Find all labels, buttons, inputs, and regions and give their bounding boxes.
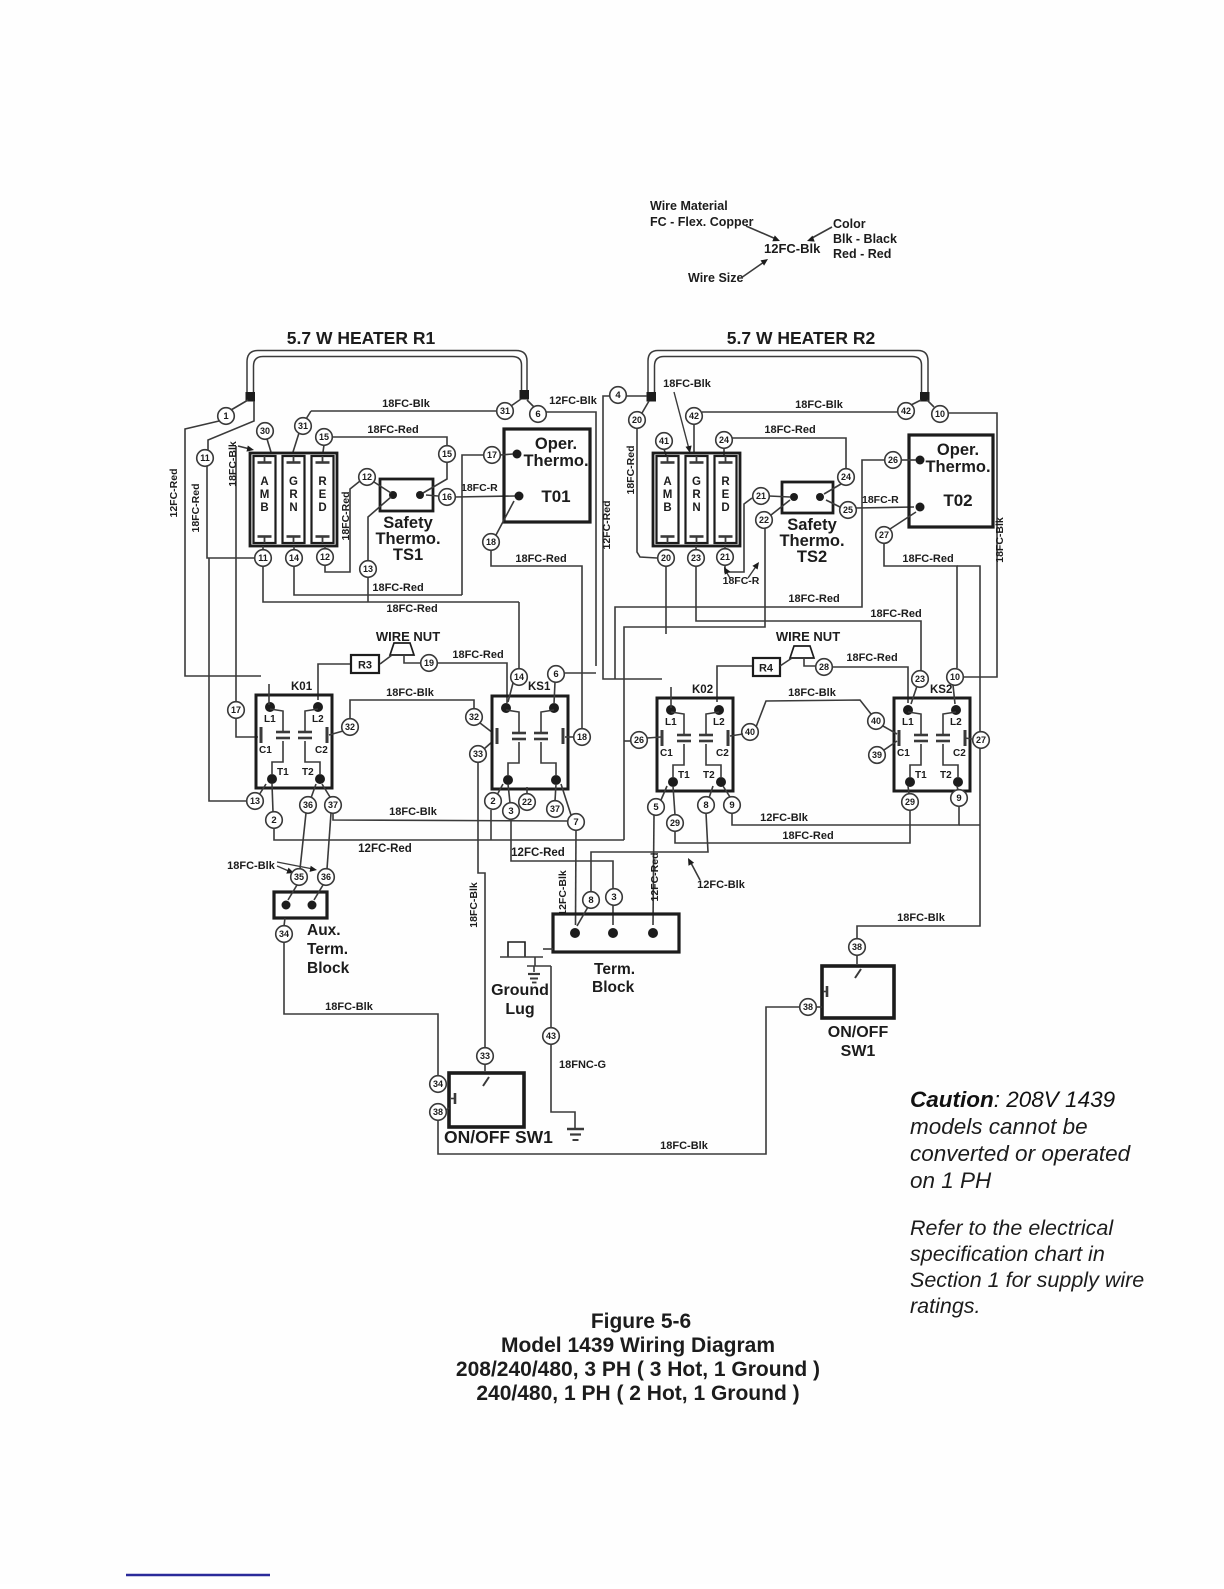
svg-text:Section 1 for supply wire: Section 1 for supply wire	[910, 1268, 1144, 1292]
svg-text:5.7 W HEATER R2: 5.7 W HEATER R2	[727, 328, 876, 348]
node 2 k01	[266, 812, 283, 829]
node 7 ks1	[568, 814, 585, 831]
aux terminal block box	[274, 892, 327, 918]
wire 34 to SW1 route	[284, 942, 438, 1076]
wire 24 to RED r2	[723, 448, 725, 455]
blue underline mark	[126, 1574, 270, 1577]
node 37 ks1	[547, 801, 564, 818]
svg-text:Caution: 208V 1439: Caution: 208V 1439	[910, 1087, 1116, 1112]
wire lug vertical 43	[550, 966, 552, 1028]
wire 18FC-Red 15 to 15	[332, 437, 447, 446]
svg-text:3: 3	[508, 806, 513, 817]
svg-text:37: 37	[550, 804, 560, 814]
svg-text:SW1: SW1	[841, 1043, 876, 1060]
K02 L2 dot	[714, 705, 724, 715]
wire node11 down to lamp 11	[207, 466, 255, 558]
node 33 ks1	[470, 746, 487, 763]
lamp R1-GRN	[283, 456, 305, 543]
svg-text:27: 27	[976, 735, 986, 745]
svg-text:KS1: KS1	[528, 681, 551, 693]
SW1 right terminal bar	[826, 986, 829, 997]
wire 18FC-Blk run k01	[333, 813, 568, 821]
node 23 lamp	[688, 550, 705, 567]
wire 4 to left vertical	[603, 396, 662, 679]
svg-text:15: 15	[442, 449, 452, 459]
svg-text:C2: C2	[716, 748, 729, 759]
svg-text:R: R	[692, 489, 701, 501]
svg-text:18FC-Red: 18FC-Red	[846, 652, 897, 664]
wire nut symbol left	[390, 643, 414, 655]
svg-text:18FC-Red: 18FC-Red	[340, 491, 352, 540]
svg-text:Wire Size: Wire Size	[688, 271, 744, 285]
wire 6 right up	[564, 672, 596, 674]
svg-text:T1: T1	[915, 770, 927, 781]
node 2 ks1	[485, 793, 502, 810]
svg-text:11: 11	[258, 553, 268, 563]
wire K01 T2 to 37	[322, 784, 330, 797]
wire 38 into box	[816, 1006, 822, 1008]
wire 31 to GRN lamp	[293, 433, 299, 452]
K01 L1 dot	[265, 702, 275, 712]
T01 top dot	[513, 450, 522, 459]
wire K02 T1 to 5	[661, 786, 667, 800]
TS1 right contact dot	[416, 491, 424, 499]
svg-text:24: 24	[841, 472, 851, 482]
ground lug symbol	[528, 973, 540, 975]
wire KS2 T2 to 9	[957, 786, 958, 790]
node 22 ts2	[756, 512, 773, 529]
node 1 top-left	[218, 408, 235, 425]
svg-text:R: R	[318, 476, 327, 488]
svg-text:Block: Block	[307, 960, 350, 977]
svg-text:Term.: Term.	[594, 961, 635, 978]
svg-text:Thermo.: Thermo.	[925, 458, 990, 476]
wire lug down	[534, 957, 536, 966]
aux dot 1	[282, 901, 291, 910]
svg-text:FC - Flex. Copper: FC - Flex. Copper	[650, 215, 754, 229]
svg-text:L2: L2	[950, 717, 962, 728]
SW1 left terminal bar	[454, 1093, 457, 1104]
lamp R1-RED	[312, 456, 334, 543]
node 12 lamp	[317, 549, 334, 566]
K01 L2 dot	[313, 702, 323, 712]
node 15 ts1	[439, 446, 456, 463]
svg-text:12FC-Red: 12FC-Red	[601, 500, 613, 549]
svg-text:5.7 W HEATER R1: 5.7 W HEATER R1	[287, 328, 436, 348]
svg-text:30: 30	[260, 426, 270, 436]
svg-text:Refer to the electrical: Refer to the electrical	[910, 1216, 1114, 1240]
wire 32 to KS1 route	[350, 700, 474, 719]
lamp R2-AMB	[657, 456, 679, 543]
wire 39 to KS2 coil	[884, 741, 897, 750]
svg-text:43: 43	[546, 1031, 556, 1041]
svg-text:E: E	[722, 489, 730, 501]
wire 40 route to KS2	[756, 700, 871, 727]
wire 25 to T02	[856, 507, 914, 508]
svg-text:18FC-Red: 18FC-Red	[902, 553, 953, 565]
wire 17 left down	[462, 455, 484, 595]
svg-text:Figure 5-6: Figure 5-6	[591, 1310, 691, 1333]
wire 17 to K01 coil	[236, 718, 258, 737]
wire 14 up	[518, 602, 520, 669]
wire 42 to GRN r2	[693, 424, 695, 452]
node 14 lamp	[286, 550, 303, 567]
node 36 aux	[318, 869, 335, 886]
svg-text:18FC-Blk: 18FC-Blk	[227, 441, 239, 487]
node 21 lamp	[717, 549, 734, 566]
svg-text:40: 40	[745, 727, 755, 737]
wire KS1 T1 to 3	[508, 784, 510, 803]
svg-text:12FC-Blk: 12FC-Blk	[557, 870, 569, 916]
svg-text:Ground: Ground	[491, 982, 549, 999]
node 9 ks2	[951, 790, 968, 807]
wire 12FC-Blk run k02	[732, 806, 959, 825]
svg-text:18FC-Blk: 18FC-Blk	[389, 806, 438, 818]
svg-text:C1: C1	[897, 748, 910, 759]
svg-text:18FC-Red: 18FC-Red	[386, 603, 437, 615]
wire heater R2 dot to 42	[911, 400, 921, 405]
wire lamp RED bottom	[324, 546, 326, 549]
svg-text:18FC-Blk: 18FC-Blk	[795, 399, 844, 411]
wire 20 down	[637, 428, 657, 558]
node 14 ks1	[511, 669, 528, 686]
svg-text:10: 10	[950, 672, 960, 682]
svg-text:27: 27	[879, 530, 889, 540]
wire 18FC-Blk horizontal 42-42	[702, 411, 898, 413]
svg-text:R3: R3	[358, 660, 372, 672]
wire lamp GRN bottom	[293, 546, 295, 550]
svg-text:L1: L1	[902, 717, 914, 728]
node 18 ks1	[574, 729, 591, 746]
svg-text:18FC-Blk: 18FC-Blk	[386, 687, 435, 699]
svg-text:20: 20	[661, 553, 671, 563]
svg-text:TS2: TS2	[797, 548, 827, 566]
node 38 sw1r top	[849, 939, 866, 956]
KS1 internal contacts	[506, 710, 519, 732]
svg-text:18FC-Blk: 18FC-Blk	[788, 687, 837, 699]
node 40 k02	[742, 724, 759, 741]
wire 18FC-Red long 14	[294, 566, 462, 595]
heater R1 left terminal dot	[246, 392, 256, 402]
resistor R4 box	[753, 658, 780, 676]
svg-text:D: D	[721, 502, 729, 514]
svg-text:12FC-Blk: 12FC-Blk	[697, 879, 746, 891]
node 36 k01	[300, 797, 317, 814]
svg-text:4: 4	[615, 390, 621, 401]
svg-text:17: 17	[231, 705, 241, 715]
heater R2 right terminal dot	[920, 392, 930, 402]
node 34 aux	[276, 926, 293, 943]
svg-text:WIRE NUT: WIRE NUT	[776, 629, 840, 644]
wire 23 lamp run	[696, 566, 921, 670]
svg-text:L2: L2	[312, 714, 324, 725]
wire 27 to KS2 coil	[965, 738, 972, 739]
wire 25 to TS2 dot	[826, 500, 840, 507]
wire K01 T1 to 13	[259, 784, 266, 795]
svg-text:Lug: Lug	[505, 1001, 534, 1018]
svg-text:Oper.: Oper.	[535, 435, 577, 453]
svg-text:33: 33	[480, 1051, 490, 1061]
svg-text:31: 31	[500, 406, 510, 416]
wire 19 to KS1	[437, 663, 507, 703]
svg-text:T02: T02	[943, 491, 972, 510]
wire 38 up right	[857, 748, 980, 939]
node 12 ts1	[359, 469, 376, 486]
svg-text:16: 16	[442, 492, 452, 502]
node 29 ks2	[902, 794, 919, 811]
K01 internal contacts	[270, 709, 283, 731]
wire node1 to K01 L1	[268, 684, 270, 705]
wire 4 to K02 L1	[670, 687, 672, 708]
svg-text:Term.: Term.	[307, 941, 348, 958]
svg-text:18FC-Red: 18FC-Red	[515, 553, 566, 565]
wire 15 to TS1 right dot	[423, 462, 447, 493]
wire 3 run to term	[511, 819, 613, 925]
svg-text:20: 20	[632, 415, 642, 425]
T02 top dot	[916, 456, 925, 465]
lamp block R2 outer	[653, 453, 740, 546]
svg-text:12FC-Red: 12FC-Red	[649, 852, 661, 901]
wire 26 stub to vertical	[624, 740, 632, 742]
svg-text:M: M	[663, 489, 673, 501]
svg-text:18FC-Red: 18FC-Red	[625, 445, 637, 494]
svg-text:18FC-Red: 18FC-Red	[870, 608, 921, 620]
wire lamp r2 bottoms	[665, 549, 667, 550]
wire K02 T1 to 29	[673, 786, 675, 815]
svg-text:12: 12	[362, 472, 372, 482]
svg-text:40: 40	[871, 716, 881, 726]
wire 14 diag to KS1	[508, 683, 513, 702]
K02 T1 dot	[668, 777, 678, 787]
node 43	[543, 1028, 560, 1045]
svg-text:9: 9	[729, 800, 734, 811]
wire 43 down to earth	[551, 1044, 575, 1128]
SW1 right switch tick	[855, 969, 861, 978]
svg-text:13: 13	[250, 796, 260, 806]
wire node1 to left vertical	[185, 421, 261, 676]
wire heater dot to node 1	[231, 400, 248, 410]
T02 bottom dot	[916, 503, 925, 512]
wire 12FC-Red run k01	[274, 828, 624, 840]
wire 6 to KS1 L2	[554, 682, 555, 704]
svg-text:Blk - Black: Blk - Black	[833, 232, 897, 246]
wire 18 to KS1 coil	[565, 736, 574, 738]
wire 32 to KS1 coil	[480, 723, 493, 733]
wire heater dot to node 6	[527, 400, 534, 407]
wire 37 to 36b	[327, 813, 331, 869]
node 42 right	[898, 403, 915, 420]
svg-text:WIRE NUT: WIRE NUT	[376, 629, 440, 644]
heater R1 right terminal dot	[520, 390, 530, 400]
KS2 L1 dot	[903, 705, 913, 715]
wire 16 to TS1 dot	[426, 495, 438, 496]
node 24 ts2	[838, 469, 855, 486]
node 39 ks2	[869, 747, 886, 764]
wire 9 to right vertical	[959, 824, 980, 826]
wire 23 to KS2 L1	[911, 686, 917, 704]
svg-text:18FC-Blk: 18FC-Blk	[227, 860, 276, 872]
node 37 k01	[325, 797, 342, 814]
wire 21 to TS2	[769, 496, 790, 497]
contactor K02 box	[657, 698, 733, 791]
wire R4 to nut to 28	[780, 658, 792, 666]
wire 7 down	[575, 830, 578, 925]
node 32 k01	[342, 719, 359, 736]
svg-text:K01: K01	[291, 681, 313, 693]
operating thermostat T02 box	[909, 435, 993, 527]
svg-text:12: 12	[320, 552, 330, 562]
node 17 coil	[228, 702, 245, 719]
wire 18FC-Blk horizontal 31-31	[311, 410, 497, 412]
node 20 lamp	[658, 550, 675, 567]
svg-text:1: 1	[223, 411, 229, 422]
svg-text:Thermo.: Thermo.	[523, 452, 588, 470]
KS1 L2 dot	[549, 703, 559, 713]
svg-text:T2: T2	[940, 770, 952, 781]
svg-text:G: G	[692, 476, 701, 488]
wire 5 to term right dot	[653, 815, 654, 925]
svg-text:5: 5	[653, 802, 659, 813]
svg-text:26: 26	[634, 735, 644, 745]
KS2 T2 dot	[953, 777, 963, 787]
svg-text:38: 38	[433, 1107, 443, 1117]
svg-text:on 1 PH: on 1 PH	[910, 1168, 992, 1193]
node 3 term	[606, 889, 623, 906]
wire 36 to aux dot	[314, 885, 323, 900]
node 8 term	[583, 892, 600, 909]
svg-text:18FC-Red: 18FC-Red	[788, 593, 839, 605]
node 6 ks1	[548, 666, 565, 683]
svg-text:18: 18	[577, 732, 587, 742]
node 23 ks2	[912, 671, 929, 688]
svg-text:R4: R4	[759, 663, 774, 675]
svg-text:A: A	[260, 476, 268, 488]
wire 24 to TS2 dot	[824, 484, 841, 494]
wire 22 long route	[624, 528, 765, 840]
wire 30 to AMB lamp	[267, 439, 271, 452]
safety thermostat TS1 box	[380, 479, 433, 511]
svg-text:15: 15	[319, 432, 329, 442]
svg-text:18FC-Blk: 18FC-Blk	[660, 1140, 709, 1152]
svg-text:24: 24	[719, 435, 729, 445]
node 38 sw1r left	[800, 999, 817, 1016]
svg-text:18FC-Red: 18FC-Red	[372, 582, 423, 594]
KS1 T1 dot	[503, 775, 513, 785]
svg-text:2: 2	[271, 815, 276, 826]
wire lug earth stub	[533, 966, 535, 972]
svg-text:18FC-Red: 18FC-Red	[764, 424, 815, 436]
svg-text:A: A	[663, 476, 671, 488]
wire 35 to aux dot	[288, 885, 297, 900]
svg-text:C1: C1	[660, 748, 673, 759]
svg-text:22: 22	[759, 515, 769, 525]
svg-text:41: 41	[659, 436, 669, 446]
wire K01 coil to 32	[329, 731, 343, 735]
K01 T1 dot	[267, 774, 277, 784]
K01 T2 dot	[315, 774, 325, 784]
wire 38 to box	[446, 1108, 449, 1110]
wire 21 lamp to TS2	[725, 498, 752, 572]
wire 26 to T02	[901, 459, 916, 461]
terminal block box	[553, 914, 679, 952]
wire 27 branch right vertical	[957, 566, 980, 732]
node 42 left	[686, 408, 703, 425]
wire 18FC-Red 24 right	[732, 438, 846, 469]
svg-text:29: 29	[905, 797, 915, 807]
wire 17 to T01	[500, 454, 513, 455]
svg-text:12FC-Blk: 12FC-Blk	[760, 812, 809, 824]
svg-text:Wire Material: Wire Material	[650, 199, 728, 213]
svg-text:KS2: KS2	[930, 684, 952, 696]
node 32 ks1	[466, 709, 483, 726]
wire lamp AMB bottom	[262, 546, 264, 550]
wire K01 T1 to 2	[272, 784, 273, 812]
wire T02 dot to 27	[890, 512, 916, 529]
wire 12FC-Blk 6 down	[546, 412, 596, 666]
wire 11 branch down to node 13	[209, 558, 247, 801]
svg-text:models cannot be: models cannot be	[910, 1114, 1088, 1139]
heater R2 element outer line	[648, 351, 928, 394]
wire heater R2 dot to 20	[642, 401, 649, 413]
wire 40 to KS2 coil	[883, 726, 897, 734]
svg-text:K02: K02	[692, 684, 713, 696]
wire 27 down right	[884, 543, 957, 668]
node 15 top	[316, 429, 333, 446]
node 29 k02	[667, 815, 684, 832]
K02 T2 dot	[716, 777, 726, 787]
svg-text:18FC-Red: 18FC-Red	[782, 830, 833, 842]
svg-text:18FNC-G: 18FNC-G	[559, 1059, 606, 1071]
contactor KS2 box	[894, 698, 970, 791]
KS1 T2 dot	[551, 775, 561, 785]
node 11 left	[197, 450, 214, 467]
node 9 k02	[724, 797, 741, 814]
svg-text:Oper.: Oper.	[937, 441, 979, 459]
svg-text:11: 11	[200, 453, 210, 463]
svg-text:Model 1439 Wiring Diagram: Model 1439 Wiring Diagram	[501, 1334, 775, 1357]
svg-text:28: 28	[819, 662, 829, 672]
svg-text:36: 36	[303, 800, 313, 810]
term dot 2	[608, 928, 618, 938]
SW1 left switch tick	[483, 1077, 489, 1086]
svg-text:31: 31	[298, 421, 308, 431]
svg-text:36: 36	[321, 872, 331, 882]
node 19	[421, 655, 438, 672]
svg-text:12FC-Red: 12FC-Red	[358, 843, 412, 855]
wire K02 L2 to R4	[717, 666, 752, 702]
node 33 sw1	[477, 1048, 494, 1065]
svg-text:B: B	[260, 502, 268, 514]
svg-text:E: E	[319, 489, 327, 501]
node 26 t02	[885, 452, 902, 469]
svg-text:ratings.: ratings.	[910, 1294, 981, 1318]
lamp R2-RED	[715, 456, 737, 543]
svg-text:TS1: TS1	[393, 546, 423, 564]
svg-text:208/240/480, 3 PH ( 3 Hot, 1 G: 208/240/480, 3 PH ( 3 Hot, 1 Ground )	[456, 1358, 820, 1381]
wire 8 to term dot	[577, 907, 588, 926]
wire nut symbol right	[790, 646, 814, 658]
svg-text:Color: Color	[833, 217, 866, 231]
node 8 k02	[698, 797, 715, 814]
svg-text:18FC-Blk: 18FC-Blk	[994, 517, 1006, 563]
svg-text:N: N	[692, 502, 700, 514]
switch SW1 right box	[822, 966, 894, 1018]
svg-text:3: 3	[611, 892, 616, 903]
node 5 k02	[648, 799, 665, 816]
wire aux to 34	[284, 918, 285, 926]
svg-text:6: 6	[553, 669, 558, 680]
svg-text:specification chart in: specification chart in	[910, 1242, 1105, 1266]
